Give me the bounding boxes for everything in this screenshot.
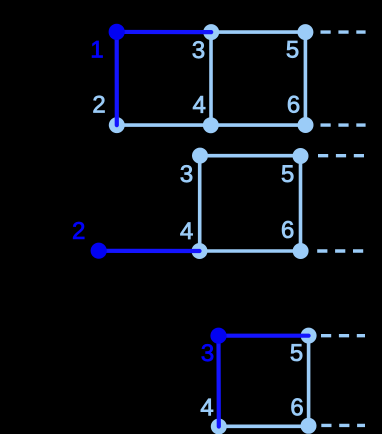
- node 4: [192, 243, 208, 259]
- wire dashed continuation bottom row: [321, 123, 366, 126]
- wire edge 5-6: [304, 32, 308, 125]
- wire edge 3-4: [198, 156, 202, 251]
- wire edge 5-6: [307, 336, 311, 426]
- wire edge 3-5: [211, 30, 305, 34]
- node 3: [210, 328, 226, 344]
- label 6: [288, 96, 299, 113]
- wire dashed continuation row 5: [321, 334, 365, 337]
- label 6: [292, 398, 303, 415]
- label 4: [180, 222, 192, 239]
- wire edge 2-4: [117, 123, 211, 127]
- wire bold edge 3-5: [219, 334, 309, 338]
- node 6: [293, 243, 309, 259]
- label 2: [94, 96, 105, 113]
- node 5: [297, 24, 313, 40]
- wire edge 4-6: [219, 424, 309, 428]
- node 3: [203, 24, 219, 40]
- node 1: [109, 24, 125, 40]
- label 6: [282, 221, 293, 238]
- node 3: [192, 148, 208, 164]
- wire bold edge 1-2: [115, 32, 119, 125]
- node 4: [211, 419, 227, 434]
- node 2: [109, 117, 125, 133]
- label 3: [193, 41, 204, 58]
- label 4: [201, 399, 213, 416]
- wire edge 4-6: [200, 249, 301, 253]
- label 3: [181, 165, 192, 182]
- label 5: [282, 165, 293, 182]
- node 5: [293, 148, 309, 164]
- wire dashed continuation row 6: [317, 249, 364, 252]
- label 3: [202, 344, 213, 361]
- label 1: [92, 41, 102, 58]
- wire bold edge 2-4: [99, 249, 200, 253]
- node 6: [301, 418, 317, 434]
- node 6: [298, 117, 314, 133]
- wire dashed continuation row 5: [318, 154, 365, 157]
- wire edge 4-6: [211, 123, 306, 127]
- wire edge 3-5: [200, 154, 301, 158]
- wire edge 3-4: [209, 32, 213, 125]
- label 5: [287, 41, 298, 58]
- label 5: [291, 344, 302, 361]
- wire edge 5-6: [299, 156, 303, 251]
- node 2: [91, 243, 107, 259]
- node 4: [203, 117, 219, 133]
- wire bold edge 1-3: [117, 30, 212, 34]
- node 5: [301, 328, 317, 344]
- label 2: [73, 222, 84, 239]
- label 4: [193, 96, 205, 113]
- wire dashed continuation row 6: [321, 424, 365, 427]
- wire bold edge 3-4: [216, 336, 221, 427]
- wire dashed continuation top row: [321, 30, 366, 33]
